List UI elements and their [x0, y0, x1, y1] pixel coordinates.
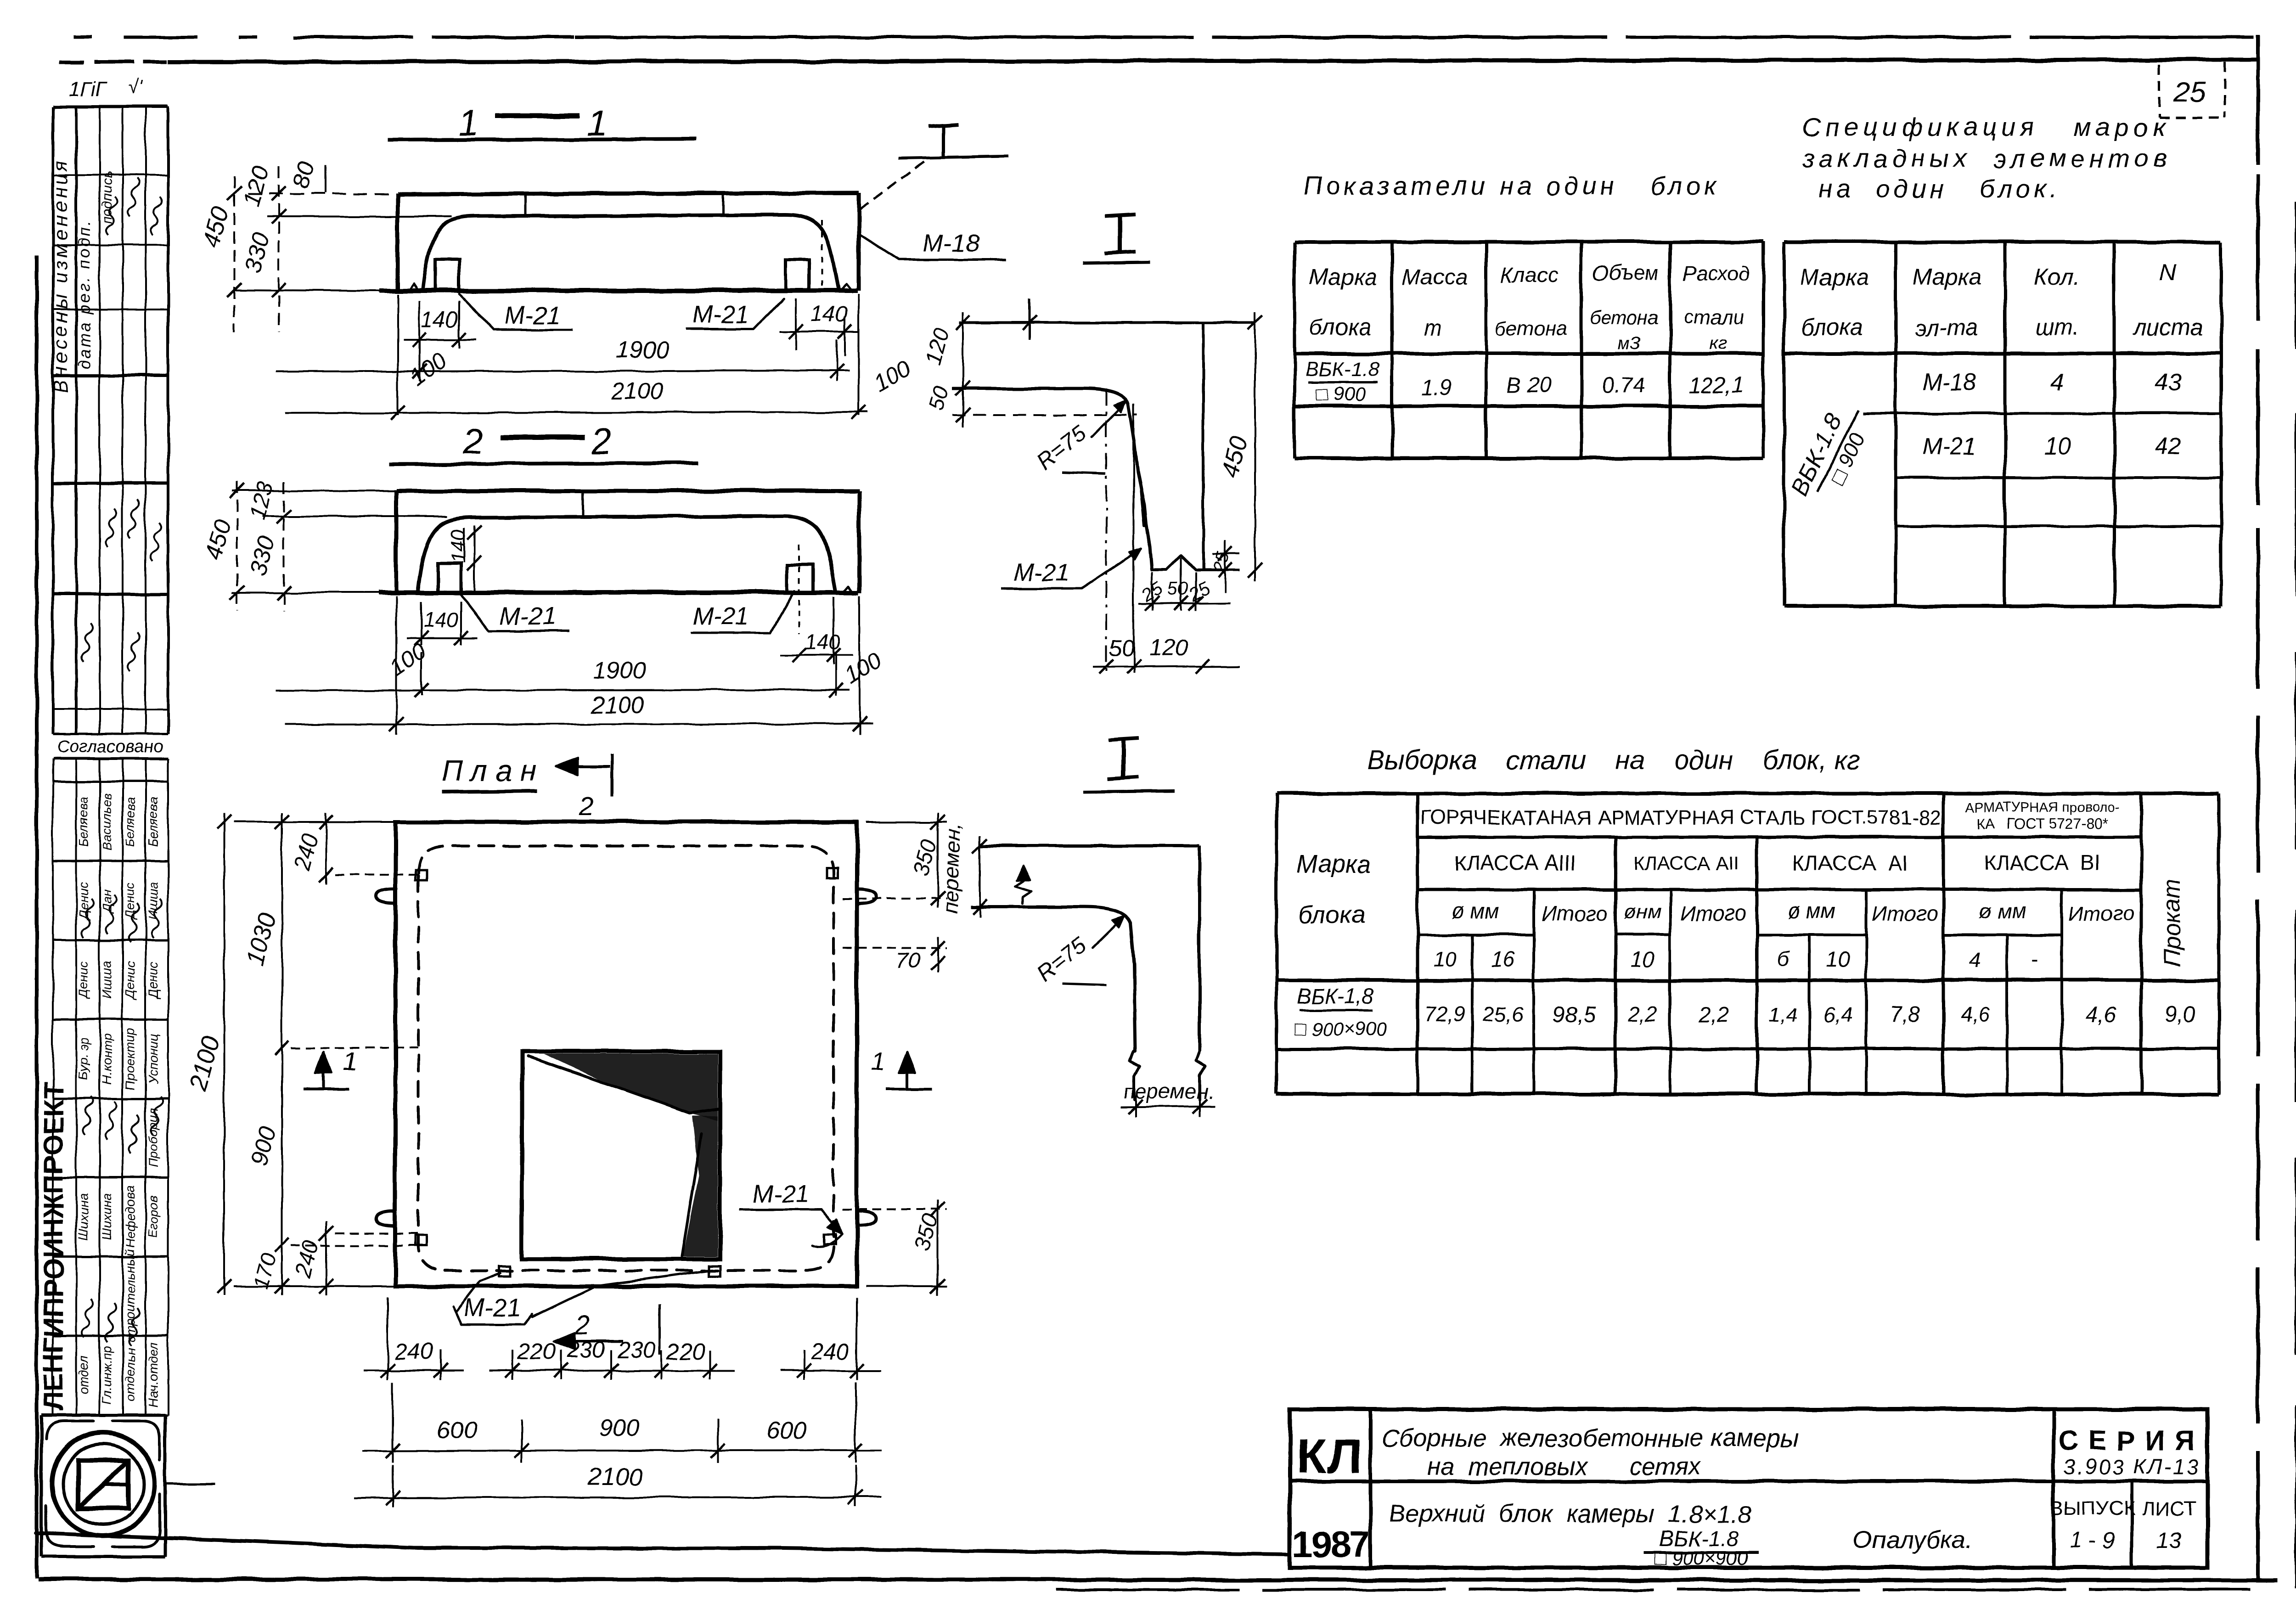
svg-text:Гл.инж.пр: Гл.инж.пр [100, 1346, 114, 1404]
svg-text:72,9: 72,9 [1424, 1002, 1465, 1026]
svg-text:М-21: М-21 [1013, 559, 1069, 586]
svg-text:Шихина: Шихина [76, 1193, 90, 1240]
svg-text:М-21: М-21 [504, 302, 561, 329]
svg-text:блока: блока [1298, 901, 1365, 928]
svg-text:ø мм: ø мм [1979, 899, 2026, 923]
svg-text:шт.: шт. [2035, 315, 2079, 340]
svg-text:-: - [2031, 947, 2037, 971]
svg-text:10: 10 [1826, 947, 1850, 971]
svg-text:АРМАТУРНАЯ проволо-: АРМАТУРНАЯ проволо- [1965, 800, 2120, 815]
svg-text:Денис: Денис [146, 962, 160, 1000]
svg-text:ВБК-1,8: ВБК-1,8 [1297, 984, 1374, 1008]
svg-text:16: 16 [1491, 947, 1515, 971]
svg-text:дата рег. подп.: дата рег. подп. [75, 219, 94, 369]
svg-text:9,0: 9,0 [2165, 1002, 2195, 1027]
svg-text:закладных элементов: закладных элементов [1802, 144, 2171, 173]
svg-text:□ 900×900: □ 900×900 [1294, 1018, 1387, 1040]
svg-text:140: 140 [421, 308, 458, 332]
svg-text:Внесены изменения: Внесены изменения [49, 157, 72, 394]
svg-text:М-21: М-21 [752, 1180, 809, 1208]
svg-text:М-21: М-21 [500, 602, 556, 630]
svg-text:эл-та: эл-та [1915, 315, 1978, 340]
svg-text:√ʹ: √ʹ [128, 76, 143, 98]
svg-text:1987: 1987 [1292, 1524, 1368, 1564]
svg-text:М-21: М-21 [464, 1294, 520, 1322]
svg-text:120: 120 [1149, 635, 1188, 661]
svg-text:13: 13 [2157, 1528, 2182, 1552]
svg-text:КЛАССА АI: КЛАССА АI [1792, 851, 1908, 875]
svg-text:Бур. эр: Бур. эр [76, 1038, 90, 1080]
svg-text:Марка: Марка [1309, 264, 1377, 290]
svg-text:ЛЕНГИПРОИНЖПРОЕКТ: ЛЕНГИПРОИНЖПРОЕКТ [38, 1082, 69, 1411]
svg-text:0.74: 0.74 [1602, 373, 1644, 398]
svg-text:1ГіГ: 1ГіГ [69, 78, 108, 100]
svg-text:Прокат: Прокат [2159, 879, 2185, 967]
svg-text:Дан: Дан [100, 889, 114, 914]
svg-text:ЛИСТ: ЛИСТ [2142, 1497, 2196, 1520]
svg-text:25,6: 25,6 [1482, 1002, 1524, 1026]
svg-text:Класс: Класс [1501, 263, 1558, 287]
svg-text:бетона: бетона [1495, 317, 1568, 340]
svg-text:листа: листа [2133, 315, 2203, 340]
svg-text:10: 10 [1433, 947, 1457, 971]
svg-text:1: 1 [587, 102, 608, 143]
svg-text:2,2: 2,2 [1698, 1002, 1729, 1027]
svg-text:КЛАССА АII: КЛАССА АII [1633, 853, 1739, 874]
svg-text:98,5: 98,5 [1553, 1002, 1596, 1027]
svg-text:122,1: 122,1 [1688, 373, 1744, 398]
svg-text:1: 1 [871, 1046, 885, 1075]
svg-text:Нефедова: Нефедова [123, 1186, 137, 1248]
svg-text:Опалубка.: Опалубка. [1853, 1526, 1972, 1554]
svg-text:70: 70 [896, 949, 921, 973]
svg-text:на один блок.: на один блок. [1818, 174, 2060, 203]
svg-text:230: 230 [617, 1337, 656, 1363]
svg-text:50: 50 [1168, 579, 1188, 599]
svg-text:Итого: Итого [1542, 901, 1608, 925]
svg-text:1.9: 1.9 [1421, 376, 1452, 400]
svg-text:Проектир: Проектир [123, 1028, 137, 1090]
svg-text:140: 140 [805, 630, 841, 654]
svg-text:1900: 1900 [616, 337, 670, 364]
svg-text:□ 900×900: □ 900×900 [1655, 1547, 1748, 1569]
svg-text:43: 43 [2155, 369, 2182, 396]
svg-text:отдел: отдел [76, 1356, 90, 1395]
svg-text:N: N [2160, 259, 2177, 285]
svg-text:Спецификация марок: Спецификация марок [1802, 112, 2169, 141]
svg-text:600: 600 [767, 1417, 807, 1444]
svg-text:Показатели на один блок: Показатели на один блок [1304, 171, 1720, 200]
svg-text:140: 140 [447, 529, 469, 563]
svg-text:блока: блока [1309, 315, 1371, 340]
svg-text:КА ГОСТ 5727-80*: КА ГОСТ 5727-80* [1976, 816, 2108, 832]
svg-text:Денис: Денис [76, 962, 90, 1000]
svg-text:П л а н: П л а н [442, 754, 537, 787]
svg-text:Расход: Расход [1683, 262, 1749, 285]
svg-text:øнм: øнм [1624, 900, 1661, 923]
svg-text:230: 230 [566, 1337, 605, 1363]
svg-text:Кол.: Кол. [2035, 264, 2080, 290]
svg-text:900: 900 [600, 1415, 640, 1441]
svg-text:м3: м3 [1618, 333, 1641, 353]
svg-text:2: 2 [462, 421, 484, 461]
svg-text:1 - 9: 1 - 9 [2071, 1528, 2115, 1552]
svg-text:Васильев: Васильев [100, 793, 114, 851]
svg-text:240: 240 [810, 1339, 850, 1364]
svg-text:Итого: Итого [1680, 901, 1746, 925]
svg-text:перемен.: перемен. [1124, 1079, 1214, 1103]
svg-text:3.903 КЛ-13: 3.903 КЛ-13 [2063, 1455, 2200, 1479]
svg-text:М-18: М-18 [922, 230, 979, 257]
svg-text:Успониц: Успониц [146, 1034, 160, 1084]
svg-text:Сборные железобетонные камеры: Сборные железобетонные камеры [1381, 1424, 1799, 1452]
svg-text:600: 600 [437, 1417, 477, 1444]
svg-text:1900: 1900 [593, 658, 647, 684]
svg-text:Шихина: Шихина [100, 1193, 114, 1240]
svg-text:2100: 2100 [610, 378, 664, 405]
svg-text:на тепловых сетях: на тепловых сетях [1427, 1453, 1702, 1480]
svg-text:7,8: 7,8 [1890, 1002, 1920, 1027]
svg-text:50: 50 [1109, 635, 1134, 661]
svg-text:10: 10 [1631, 947, 1654, 971]
svg-text:Согласовано: Согласовано [57, 737, 163, 756]
svg-text:М-21: М-21 [692, 301, 749, 328]
svg-text:2100: 2100 [591, 692, 644, 718]
svg-text:2100: 2100 [587, 1463, 643, 1491]
svg-text:6,4: 6,4 [1823, 1002, 1852, 1026]
svg-text:□ 900: □ 900 [1316, 383, 1366, 405]
svg-text:Беляева: Беляева [146, 797, 160, 847]
svg-text:1,4: 1,4 [1769, 1004, 1797, 1026]
svg-text:ГОРЯЧЕКАТАНАЯ АРМАТУРНАЯ СТАЛЬ: ГОРЯЧЕКАТАНАЯ АРМАТУРНАЯ СТАЛЬ ГОСТ.5781… [1420, 806, 1941, 829]
svg-text:10: 10 [2044, 433, 2071, 460]
svg-text:Ишша: Ишша [100, 961, 114, 999]
svg-text:Марка: Марка [1800, 264, 1868, 290]
svg-text:блока: блока [1801, 315, 1863, 340]
svg-text:Денис: Денис [76, 883, 90, 921]
svg-text:2: 2 [575, 1310, 590, 1340]
svg-text:КЛАССА АIII: КЛАССА АIII [1455, 851, 1576, 875]
svg-text:Масса: Масса [1402, 265, 1468, 290]
svg-text:220: 220 [666, 1339, 705, 1364]
svg-text:4: 4 [2051, 369, 2064, 396]
svg-text:240: 240 [394, 1339, 433, 1364]
svg-text:2,2: 2,2 [1627, 1002, 1657, 1026]
svg-text:Беляева: Беляева [76, 797, 90, 847]
svg-text:1: 1 [458, 102, 479, 143]
svg-text:М-21: М-21 [1922, 433, 1976, 460]
svg-text:25: 25 [2173, 77, 2206, 108]
svg-text:4,6: 4,6 [2086, 1002, 2117, 1027]
svg-text:М-21: М-21 [692, 602, 749, 630]
svg-text:отдельн: отдельн [123, 1349, 137, 1401]
svg-text:Итого: Итого [1872, 901, 1938, 925]
svg-text:140: 140 [423, 608, 459, 632]
svg-text:Беляева: Беляева [123, 797, 137, 847]
svg-text:ВБК-1.8: ВБК-1.8 [1306, 358, 1379, 380]
svg-text:Егоров: Егоров [146, 1195, 160, 1238]
svg-text:Выборка стали на один: Выборка стали на один блок, кг [1367, 745, 1860, 775]
svg-text:42: 42 [2155, 433, 2182, 460]
svg-text:т: т [1424, 316, 1442, 340]
svg-text:СЕРИЯ: СЕРИЯ [2058, 1425, 2205, 1456]
svg-text:2: 2 [591, 421, 612, 461]
svg-text:стали: стали [1684, 306, 1744, 328]
svg-text:Марка: Марка [1913, 264, 1981, 290]
svg-text:Денис: Денис [123, 962, 137, 1000]
svg-text:б: б [1777, 947, 1790, 971]
svg-text:Объем: Объем [1592, 261, 1659, 285]
svg-text:4,6: 4,6 [1960, 1002, 1990, 1026]
svg-text:Ишша: Ишша [146, 882, 160, 920]
svg-text:1: 1 [343, 1046, 357, 1075]
svg-text:КЛ: КЛ [1296, 1428, 1363, 1484]
svg-text:Нач.отдел: Нач.отдел [146, 1342, 160, 1407]
svg-text:Марка: Марка [1296, 850, 1370, 878]
svg-text:2: 2 [579, 791, 594, 821]
svg-text:М-18: М-18 [1922, 369, 1977, 396]
svg-text:220: 220 [517, 1339, 556, 1364]
svg-text:140: 140 [811, 302, 848, 326]
svg-text:В 20: В 20 [1507, 373, 1552, 398]
svg-text:Денис: Денис [123, 883, 137, 921]
svg-text:Верхний блок камеры 1.8×1.8: Верхний блок камеры 1.8×1.8 [1389, 1500, 1751, 1528]
svg-text:ø мм: ø мм [1788, 899, 1835, 923]
svg-text:бетона: бетона [1590, 306, 1659, 328]
svg-text:Н.контр: Н.контр [100, 1034, 114, 1085]
svg-text:КЛАССА ВI: КЛАССА ВI [1984, 851, 2100, 875]
svg-text:перемен,: перемен, [938, 823, 965, 914]
svg-text:кг: кг [1710, 333, 1728, 353]
svg-text:Итого: Итого [2068, 901, 2134, 925]
svg-text:ø мм: ø мм [1452, 899, 1499, 923]
svg-text:ВЫПУСК: ВЫПУСК [2050, 1497, 2135, 1520]
svg-text:4: 4 [1969, 947, 1981, 971]
